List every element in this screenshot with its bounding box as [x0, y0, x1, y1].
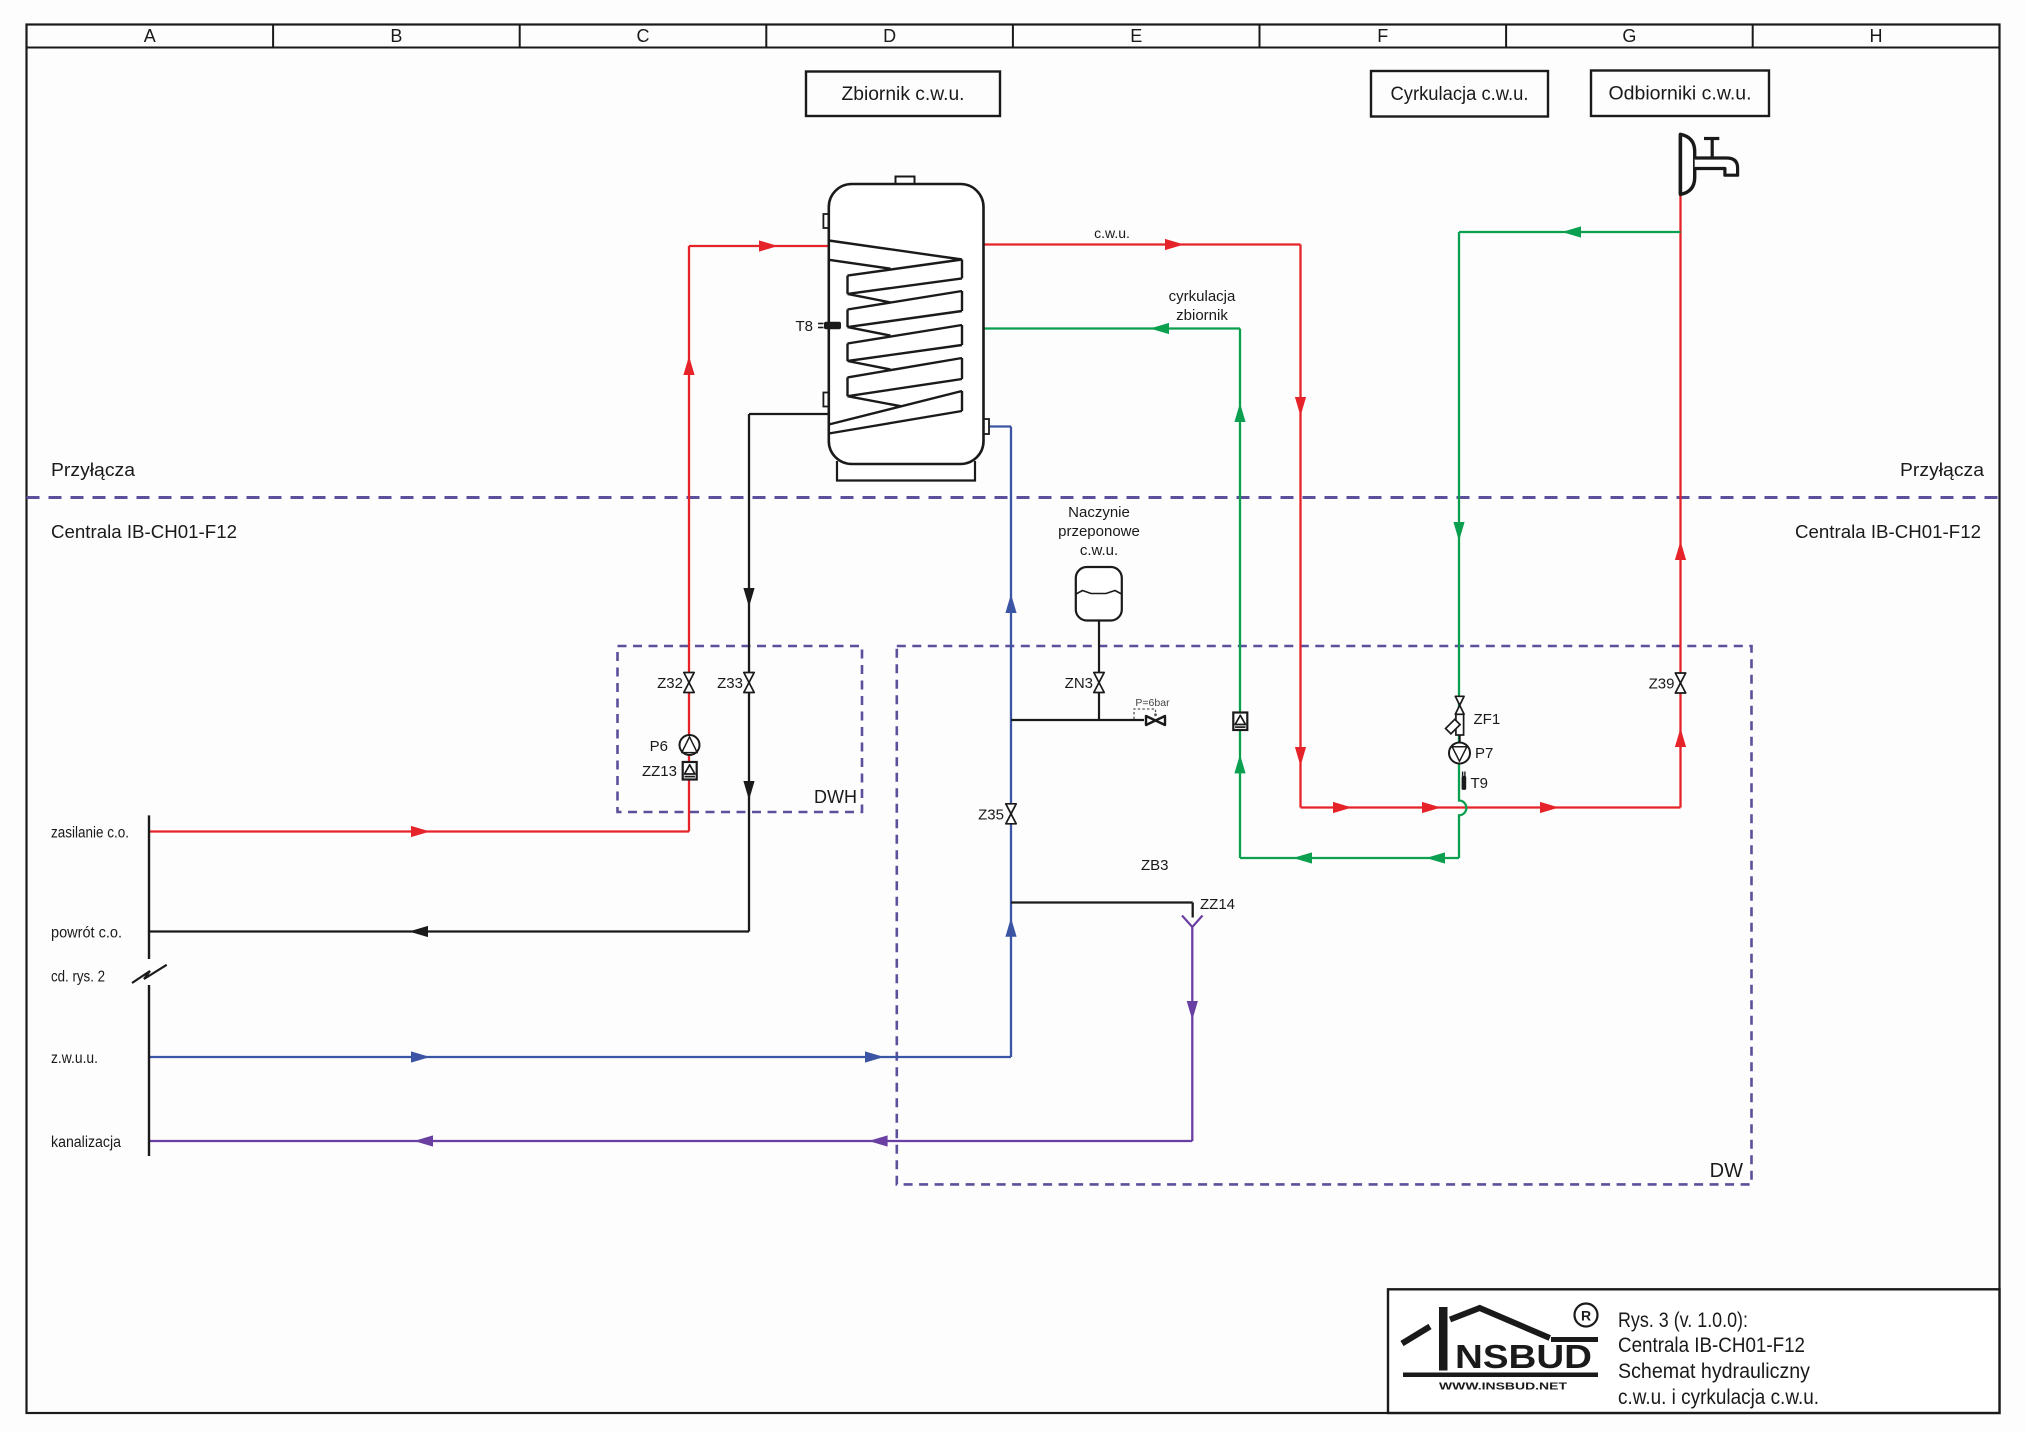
svg-text:D: D: [883, 26, 896, 46]
svg-text:Centrala IB-CH01-F12: Centrala IB-CH01-F12: [1795, 522, 1981, 542]
svg-text:A: A: [144, 26, 156, 46]
valve Z32: [684, 673, 694, 693]
filter ZF1: [1455, 696, 1464, 705]
sensor T9: [1462, 772, 1464, 777]
svg-text:cd. rys. 2: cd. rys. 2: [51, 969, 105, 986]
svg-text:powrót c.o.: powrót c.o.: [51, 925, 122, 942]
pump P7: [1449, 743, 1470, 764]
svg-text:H: H: [1870, 26, 1883, 46]
wire: c.w.u. red from tank top: [984, 243, 1301, 245]
sensor T8: [818, 323, 824, 325]
wire: green bottom horizontal y=858: [1240, 857, 1459, 859]
wire: powrot c.o. horizontal: [149, 930, 749, 932]
svg-text:P7: P7: [1475, 745, 1493, 762]
svg-text:Z35: Z35: [978, 807, 1004, 824]
check valve on green riser: [1233, 713, 1247, 731]
svg-text:DW: DW: [1710, 1160, 1743, 1182]
svg-text:zbiornik: zbiornik: [1176, 307, 1228, 324]
check valve ZZ13: [683, 762, 697, 780]
tap Odbiorniki icon: [1680, 134, 1694, 194]
wire: zasilanie c.o. red supply horizontal: [149, 830, 689, 832]
svg-text:C: C: [637, 26, 650, 46]
tank Zbiornik body: [896, 177, 915, 186]
funnel ZZ14: [1182, 916, 1203, 928]
svg-text:Centrala IB-CH01-F12: Centrala IB-CH01-F12: [51, 522, 237, 542]
svg-text:P=6bar: P=6bar: [1135, 697, 1170, 709]
valve Z39: [1675, 673, 1685, 693]
wire: red riser x=689: [688, 246, 690, 832]
svg-text:Przyłącza: Przyłącza: [1900, 460, 1985, 480]
title block: [1388, 1289, 2000, 1413]
valve Z35: [1006, 804, 1016, 824]
svg-text:Zbiornik c.w.u.: Zbiornik c.w.u.: [842, 84, 965, 105]
svg-text:Cyrkulacja c.w.u.: Cyrkulacja c.w.u.: [1391, 84, 1529, 105]
svg-text:Z39: Z39: [1649, 676, 1675, 693]
title box Cyrkulacja c.w.u.: [1371, 71, 1548, 117]
wire: red horizontal y=807.5: [1301, 806, 1681, 808]
terminal stub vertical line bottom-left: [148, 815, 150, 959]
svg-text:E: E: [1130, 26, 1142, 46]
wire: ZB3 black branch y=902.5: [1011, 901, 1193, 903]
title box Zbiornik c.w.u.: [806, 72, 1000, 117]
svg-text:przeponowe: przeponowe: [1058, 523, 1140, 540]
svg-text:kanalizacja: kanalizacja: [51, 1134, 121, 1151]
svg-text:WWW.INSBUD.NET: WWW.INSBUD.NET: [1439, 1381, 1568, 1393]
svg-text:Odbiorniki c.w.u.: Odbiorniki c.w.u.: [1609, 84, 1752, 105]
wire: green drop x=1459 with hop over red: [1459, 232, 1466, 858]
node: Przylacza / Centrala separator dashed line: [27, 496, 2000, 499]
svg-text:c.w.u. i cyrkulacja c.w.u.: c.w.u. i cyrkulacja c.w.u.: [1618, 1385, 1819, 1409]
wire: red riser to tap x=1680.5: [1679, 194, 1681, 807]
svg-text:NSBUD: NSBUD: [1455, 1338, 1592, 1375]
safety valve P=6bar horizontal bowtie: [1146, 716, 1156, 725]
svg-text:ZN3: ZN3: [1065, 675, 1093, 692]
svg-text:Schemat hydrauliczny: Schemat hydrauliczny: [1618, 1359, 1810, 1383]
svg-text:cyrkulacja: cyrkulacja: [1169, 288, 1236, 305]
wire: green riser x=1240: [1239, 329, 1241, 859]
svg-text:z.w.u.u.: z.w.u.u.: [51, 1050, 98, 1067]
svg-text:ZB3: ZB3: [1141, 857, 1169, 874]
svg-text:Z33: Z33: [717, 675, 743, 692]
svg-text:c.w.u.: c.w.u.: [1094, 225, 1130, 241]
svg-text:T8: T8: [795, 318, 813, 335]
svg-text:ZZ14: ZZ14: [1200, 896, 1235, 913]
pipe break symbol cd. rys. 2: [132, 965, 167, 983]
wire: red into tank: [689, 245, 829, 247]
expansion vessel Naczynie przeponowe: [1076, 567, 1122, 621]
svg-text:Centrala IB-CH01-F12: Centrala IB-CH01-F12: [1618, 1333, 1805, 1357]
svg-text:P6: P6: [650, 738, 668, 755]
svg-text:ZF1: ZF1: [1474, 711, 1501, 728]
wire: kanalizacja purple horizontal: [149, 1140, 1192, 1142]
svg-text:Rys. 3 (v. 1.0.0):: Rys. 3 (v. 1.0.0):: [1618, 1308, 1748, 1332]
svg-text:Przyłącza: Przyłącza: [51, 460, 136, 480]
wire: purple drop x=1192.3: [1191, 927, 1193, 1141]
title box Odbiorniki c.w.u.: [1591, 71, 1769, 117]
wire: black drop x=749: [748, 414, 750, 932]
InsBud logo: [1439, 1307, 1448, 1371]
svg-text:zasilanie c.o.: zasilanie c.o.: [51, 825, 129, 842]
svg-text:B: B: [390, 26, 402, 46]
wire: green circulation to tank y=328.5: [984, 327, 1241, 329]
valve ZN3: [1094, 673, 1104, 693]
tank coil heat exchanger: [829, 241, 962, 434]
svg-text:DWH: DWH: [814, 787, 857, 807]
svg-text:ZZ13: ZZ13: [642, 763, 677, 780]
wire: black return from tank: [749, 413, 829, 415]
wire: red drop x=1300.5: [1299, 245, 1301, 808]
DWH dashed box: [618, 646, 863, 812]
wire: green top horizontal y=232: [1459, 231, 1681, 233]
svg-text:Z32: Z32: [657, 675, 683, 692]
svg-text:F: F: [1377, 26, 1388, 46]
DW dashed box: [897, 646, 1752, 1184]
svg-text:T9: T9: [1471, 775, 1489, 792]
svg-text:c.w.u.: c.w.u.: [1080, 542, 1118, 559]
wire: z.w.u.u. blue horizontal: [149, 1056, 1011, 1058]
svg-text:G: G: [1622, 26, 1636, 46]
wire: blue riser x=1011: [1010, 427, 1012, 1058]
valve Z33: [744, 673, 754, 693]
svg-text:R: R: [1581, 1308, 1591, 1324]
svg-text:Naczynie: Naczynie: [1068, 504, 1130, 521]
wire: expansion vessel branch y=720: [1011, 719, 1144, 721]
pump P6: [680, 735, 700, 755]
